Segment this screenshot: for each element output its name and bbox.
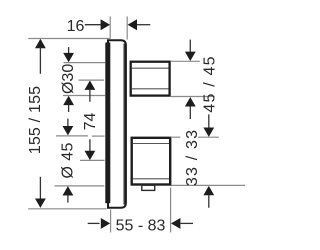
- svg-text:Ø 45: Ø 45: [59, 142, 76, 178]
- dim 155/155: bottom arrow (points down): [35, 199, 46, 208]
- svg-text:45 / 45: 45 / 45: [201, 55, 218, 112]
- wall line (thick bar behind plate): [105, 43, 110, 204]
- dim 55-83: right arrow (points left): [171, 218, 180, 229]
- dim 33/33: upper arrow tail: [208, 114, 210, 127]
- dim 45/45: lower arrow tail: [189, 106, 191, 119]
- dim 45/45: upper arrow tail: [189, 40, 191, 52]
- svg-text:33 / 33: 33 / 33: [184, 129, 201, 186]
- dim 45/45: upper arrow (points down): [185, 52, 196, 61]
- dim D45: bottom extension line: [55, 185, 105, 187]
- dim 74: lower arrow tail: [89, 139, 91, 151]
- dim 33/33: lower arrow tail: [208, 195, 210, 208]
- handle H2 upper chamfer line: [133, 143, 169, 145]
- dim 155/155: dimension line lower segment: [39, 177, 41, 200]
- svg-text:74: 74: [82, 113, 99, 131]
- handle H1 (top, shut-off) body: [131, 62, 170, 96]
- dim 16: right extension line: [126, 16, 128, 39]
- dim 155/155: dimension line upper segment: [39, 47, 41, 74]
- dim D45: top extension line left segment: [56, 135, 88, 137]
- escutcheon plate (side profile, rounded rect): [108, 40, 126, 208]
- handle H2 lower chamfer line: [133, 178, 169, 180]
- dim 55-83: left arrow (points right): [101, 218, 110, 229]
- dim D45: top extension line right segment: [92, 135, 105, 137]
- handle H2 safety-stop tab: [142, 185, 155, 190]
- dim 33/33: lower arrow (points up): [203, 186, 214, 195]
- dim 33/33: bottom extension line: [171, 184, 245, 186]
- svg-text:155 / 155: 155 / 155: [27, 86, 44, 155]
- plate front face inner edge: [123, 44, 125, 205]
- svg-text:55 - 83: 55 - 83: [116, 217, 166, 234]
- dim 74: bottom extension line: [80, 159, 105, 161]
- dim 74: upper arrow (points up): [85, 81, 96, 90]
- dim D30: upper arrow tail: [68, 47, 70, 53]
- dim D30: lower arrow (points up): [63, 96, 74, 105]
- dim 55-83: right leader line: [180, 222, 193, 224]
- handle H2 (bottom, thermostat) body: [132, 138, 171, 185]
- dim D45: lower arrow tail: [67, 195, 69, 202]
- svg-text:16: 16: [67, 18, 85, 35]
- dim D30: bottom extension line: [63, 95, 105, 97]
- dim 155/155: top arrow (points up): [35, 39, 46, 48]
- dim 45/45: bottom extension line: [171, 96, 215, 98]
- svg-text:Ø30: Ø30: [60, 64, 77, 94]
- dim D45: upper arrow tail: [67, 119, 69, 127]
- dim 16: left leader line: [85, 24, 101, 26]
- dim 55-83: right extension line: [170, 188, 172, 233]
- dim 155/155: bottom extension line: [28, 208, 107, 210]
- dim 16: left extension line: [109, 16, 111, 37]
- dim D30: lower arrow tail: [68, 105, 70, 112]
- dim 16: left arrow (points right): [101, 19, 110, 30]
- dim 45/45: lower arrow (points up): [185, 97, 196, 106]
- dim D30: upper arrow (points down): [63, 53, 74, 62]
- dim D45: upper arrow (points down): [63, 126, 74, 135]
- dim 155/155: top extension line: [28, 38, 110, 40]
- dim D30: top extension line: [64, 62, 106, 64]
- dim 16: right arrow (points left): [128, 19, 137, 30]
- handle H1 upper chamfer line: [132, 67, 169, 69]
- dim 33/33: top extension line right segment: [198, 136, 219, 138]
- dim 55-83: left leader line: [88, 222, 100, 224]
- dim 33/33: top extension line left segment: [171, 136, 181, 138]
- dim 16: right leader line: [137, 24, 150, 26]
- dim 74: upper arrow tail: [89, 90, 91, 102]
- handle H1 lower chamfer line: [132, 88, 169, 90]
- dim 33/33: upper arrow (points down): [203, 128, 214, 137]
- dim D45: lower arrow (points up): [63, 186, 74, 195]
- dim 45/45: top extension line: [171, 60, 200, 62]
- dim 74: top extension line: [79, 79, 104, 81]
- dim 74: lower arrow (points down): [85, 151, 96, 160]
- dim 55-83: left extension line: [110, 210, 112, 233]
